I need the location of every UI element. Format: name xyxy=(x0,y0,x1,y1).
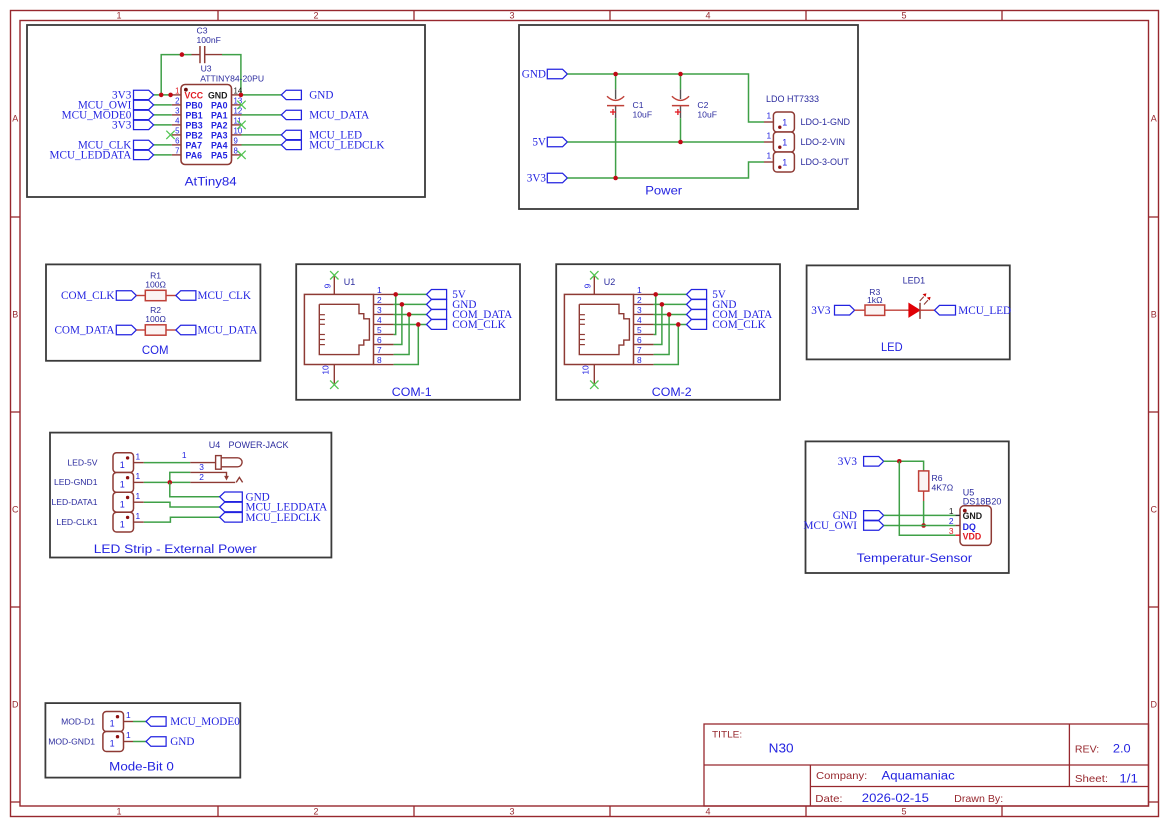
svg-text:3: 3 xyxy=(175,107,179,116)
wire U2 pin 8 rise xyxy=(654,324,679,364)
svg-text:Company:: Company: xyxy=(816,771,867,782)
block outline COM xyxy=(46,264,260,360)
power jack U4 barrel xyxy=(216,456,243,470)
svg-text:7: 7 xyxy=(175,147,179,156)
net flag 3V3 xyxy=(547,173,567,183)
wire U1 pin 3 to COM_DATA xyxy=(394,313,427,315)
svg-text:COM_CLK: COM_CLK xyxy=(712,319,765,331)
wire U2 pin 7 rise xyxy=(654,314,670,354)
wire MCU_MODE0 to U3 pin 3 xyxy=(154,114,172,116)
resistor R1 100ohm xyxy=(136,295,145,297)
connector MOD-D1 xyxy=(103,712,124,732)
svg-text:PB0: PB0 xyxy=(186,100,203,110)
wire MOD-D1 to MCU_MODE0 xyxy=(133,721,146,723)
no-connect U3 pin 5 xyxy=(166,131,174,139)
svg-text:3: 3 xyxy=(509,11,514,21)
svg-text:7: 7 xyxy=(377,345,382,355)
svg-text:C: C xyxy=(12,505,19,515)
connector pin LDO-1-GND xyxy=(764,121,773,123)
svg-text:D: D xyxy=(1150,700,1157,710)
svg-text:1: 1 xyxy=(136,451,141,461)
connector LED-GND1 xyxy=(113,473,134,493)
junction U2 pin 1 xyxy=(653,292,658,297)
svg-text:100nF: 100nF xyxy=(197,35,221,45)
svg-text:DS18B20: DS18B20 xyxy=(963,497,1002,507)
wire 3V3 to U3 pin 4 xyxy=(154,124,172,126)
svg-text:1: 1 xyxy=(136,511,141,521)
power jack U4 pin 1 stub xyxy=(190,462,215,464)
net flag GND xyxy=(687,300,707,310)
svg-text:PA4: PA4 xyxy=(211,140,228,150)
wire U1 pin 4 to COM_CLK xyxy=(394,323,427,325)
net flag GND xyxy=(281,90,301,99)
svg-text:REV:: REV: xyxy=(1075,745,1099,756)
net flag GND xyxy=(864,511,884,521)
junction C1 bottom xyxy=(613,176,618,181)
svg-text:COM_CLK: COM_CLK xyxy=(61,290,114,302)
connector U1 socket profile xyxy=(319,304,369,354)
connector U2 socket profile xyxy=(579,304,629,354)
frame column ticks xyxy=(218,11,1002,817)
svg-text:100Ω: 100Ω xyxy=(145,314,166,324)
wire GND1 up to pin 3 xyxy=(170,472,191,482)
wire U2 pin 2 to GND xyxy=(654,303,687,305)
svg-text:U3: U3 xyxy=(201,64,212,74)
svg-text:A: A xyxy=(1151,114,1157,124)
junction U1 pin 4 xyxy=(416,322,421,327)
svg-text:PA3: PA3 xyxy=(211,130,228,140)
connector U2 RJ45 body xyxy=(564,294,633,364)
no-connect U1 pin 9 xyxy=(330,271,338,279)
svg-text:1: 1 xyxy=(782,137,787,147)
no-connect U1 pin 10 xyxy=(330,381,338,389)
svg-text:MCU_CLK: MCU_CLK xyxy=(198,290,251,302)
svg-text:6: 6 xyxy=(637,335,642,345)
wire U3 pin 10 to MCU_LED xyxy=(242,134,282,136)
svg-text:3V3: 3V3 xyxy=(811,305,831,317)
svg-text:5V: 5V xyxy=(532,137,546,149)
net flag MCU_MODE0 xyxy=(146,717,166,727)
block outline LED xyxy=(807,265,1010,359)
wire 5V to LDO pin 2 xyxy=(567,141,764,143)
wire U1 pin 7 rise xyxy=(394,314,410,354)
wire U1 pin 6 rise xyxy=(394,304,402,344)
svg-text:MCU_DATA: MCU_DATA xyxy=(309,110,369,122)
wire U1 pin 8 rise xyxy=(394,324,419,364)
svg-text:1: 1 xyxy=(116,11,121,21)
svg-text:1: 1 xyxy=(110,739,115,749)
net flag MCU_LEDCLK xyxy=(220,513,243,523)
net flag COM_DATA xyxy=(427,310,447,320)
svg-text:1: 1 xyxy=(120,500,125,510)
frame row ticks xyxy=(11,217,1159,802)
net flag MCU_CLK xyxy=(134,140,154,149)
wire MCU_LEDDATA to U3 pin 7 xyxy=(154,154,172,156)
connector LED-5V xyxy=(113,453,134,473)
connector LED-DATA1 xyxy=(113,492,134,512)
capacitor C3 xyxy=(192,46,223,63)
svg-text:5: 5 xyxy=(901,11,906,21)
svg-text:4: 4 xyxy=(175,117,180,126)
wire LED-CLK1 to MCU_LEDCLK xyxy=(144,517,220,522)
net flag COM_CLK xyxy=(427,320,447,330)
svg-text:1: 1 xyxy=(116,807,121,817)
U2 pins 1-8 stubs and numbers xyxy=(634,285,654,365)
IC U3 left pin stubs and numbers xyxy=(172,87,181,156)
svg-text:10uF: 10uF xyxy=(697,109,717,119)
svg-text:5: 5 xyxy=(637,325,642,335)
svg-text:1: 1 xyxy=(120,460,125,470)
svg-text:9: 9 xyxy=(234,137,238,146)
net flag GND xyxy=(427,300,447,310)
svg-text:Power: Power xyxy=(645,183,682,197)
svg-text:C: C xyxy=(1150,505,1157,515)
svg-text:2: 2 xyxy=(637,295,642,305)
block outline Mode-Bit 0 xyxy=(45,703,240,778)
wire MCU_CLK to U3 pin 6 xyxy=(154,144,172,146)
svg-text:2026-02-15: 2026-02-15 xyxy=(862,793,929,805)
svg-text:PA6: PA6 xyxy=(186,150,203,160)
power jack U4 pin 3 switch xyxy=(190,472,226,476)
svg-text:N30: N30 xyxy=(769,742,794,756)
U5 pin stubs and numbers xyxy=(955,514,960,516)
net flag COM_DATA xyxy=(687,310,707,320)
U1 pin 9 stub top xyxy=(333,276,335,294)
block outline Temperatur-Sensor xyxy=(806,441,1009,573)
svg-text:B: B xyxy=(1151,310,1157,320)
sensor U5 DS18B20 body xyxy=(960,506,991,546)
capacitor C1 polarized xyxy=(615,89,617,118)
svg-text:GND: GND xyxy=(170,736,194,748)
svg-text:Mode-Bit 0: Mode-Bit 0 xyxy=(109,759,174,773)
junction U2 pin 4 xyxy=(676,322,681,327)
wire LED-DATA1 to MCU_LEDDATA xyxy=(144,502,220,507)
svg-text:LED1: LED1 xyxy=(903,276,926,286)
svg-text:3: 3 xyxy=(949,526,954,536)
svg-text:10: 10 xyxy=(581,365,591,375)
wire C1 bottom lead xyxy=(615,118,617,178)
net flag COM_CLK xyxy=(687,320,707,330)
net flag MCU_LEDDATA xyxy=(220,502,243,512)
svg-text:GND: GND xyxy=(522,69,546,81)
wire MCU_OWI to U3 pin 2 xyxy=(154,104,172,106)
wire U2 pin 4 to COM_CLK xyxy=(654,323,687,325)
wire U1 pin 1 to 5V xyxy=(394,293,427,295)
svg-text:LED-DATA1: LED-DATA1 xyxy=(51,497,97,507)
svg-text:MCU_LEDDATA: MCU_LEDDATA xyxy=(50,150,132,162)
svg-text:1: 1 xyxy=(767,111,772,121)
net flag MCU_LEDDATA xyxy=(134,150,154,159)
junction U1 pin 1 xyxy=(393,292,398,297)
wire U3 pin 12 to MCU_DATA xyxy=(242,114,282,116)
svg-text:1: 1 xyxy=(782,117,787,127)
wire R3 to LED1 xyxy=(885,309,910,311)
wire C1 top lead xyxy=(615,74,617,89)
connector U1 RJ45 body xyxy=(304,294,373,364)
wire 3V3 to U3 pin 1 xyxy=(154,94,172,96)
svg-text:8: 8 xyxy=(377,355,382,365)
svg-text:COM: COM xyxy=(142,343,169,357)
svg-text:VCC: VCC xyxy=(185,90,204,100)
svg-text:PA2: PA2 xyxy=(211,120,228,130)
net flag GND xyxy=(220,492,243,502)
svg-text:LED-CLK1: LED-CLK1 xyxy=(56,517,97,527)
svg-text:4: 4 xyxy=(377,315,382,325)
wire C2 top lead xyxy=(680,74,682,89)
svg-text:U4: U4 xyxy=(209,440,221,450)
block outline Power xyxy=(519,25,858,209)
net flag MCU_OWI xyxy=(134,100,154,109)
no-connect U3 pin 13 xyxy=(237,101,245,109)
svg-text:2.0: 2.0 xyxy=(1113,744,1131,756)
svg-text:3: 3 xyxy=(509,807,514,817)
svg-text:U2: U2 xyxy=(604,277,616,287)
net flag MCU_DATA xyxy=(176,325,196,335)
svg-text:LDO HT7333: LDO HT7333 xyxy=(766,94,819,104)
IC U3 pin names xyxy=(185,90,228,160)
svg-text:PA0: PA0 xyxy=(211,100,228,110)
net flag GND xyxy=(547,69,567,79)
svg-text:AtTiny84: AtTiny84 xyxy=(185,174,237,188)
connector pin LDO-2-VIN xyxy=(764,141,773,143)
U2 pin 9 stub top xyxy=(593,276,595,294)
wire 3V3 to R6 xyxy=(884,461,924,471)
net flag COM_DATA xyxy=(116,325,136,335)
wire U3 pin 14 to GND xyxy=(242,94,282,96)
connector LED-CLK1 xyxy=(113,512,134,532)
svg-text:LDO-2-VIN: LDO-2-VIN xyxy=(801,137,846,147)
wire LED-5V to jack pin 1 xyxy=(144,462,191,464)
svg-text:MCU_LED: MCU_LED xyxy=(958,305,1011,317)
no-connect U3 pin 11 xyxy=(237,121,245,129)
svg-text:1/1: 1/1 xyxy=(1119,773,1138,785)
svg-text:2: 2 xyxy=(949,516,954,526)
svg-text:B: B xyxy=(12,310,18,320)
wire U2 pin 5 rise xyxy=(654,294,656,334)
svg-text:1: 1 xyxy=(110,719,115,729)
svg-text:Temperatur-Sensor: Temperatur-Sensor xyxy=(857,551,973,565)
junction U2 pin 2 xyxy=(660,302,665,307)
svg-text:4: 4 xyxy=(637,315,642,325)
net flag 5V xyxy=(427,290,447,300)
svg-text:PB3: PB3 xyxy=(186,120,203,130)
wire 3V3 down to VDD xyxy=(899,461,955,535)
capacitor C2 polarized xyxy=(680,89,682,118)
wire U2 pin 3 to COM_DATA xyxy=(654,313,687,315)
svg-text:5: 5 xyxy=(175,127,180,136)
U1 pin 10 stub bottom xyxy=(333,365,335,384)
svg-text:2: 2 xyxy=(175,97,179,106)
resistor R2 100ohm xyxy=(136,329,145,331)
svg-text:LED-5V: LED-5V xyxy=(67,457,97,467)
svg-text:1: 1 xyxy=(637,285,642,295)
svg-text:3: 3 xyxy=(377,305,382,315)
net flag GND xyxy=(146,737,166,747)
title block border xyxy=(704,724,1149,806)
svg-text:LDO-3-OUT: LDO-3-OUT xyxy=(801,157,850,167)
svg-text:3V3: 3V3 xyxy=(527,173,547,185)
junction R6 DQ xyxy=(921,523,926,528)
svg-text:PB1: PB1 xyxy=(186,110,203,120)
svg-text:5: 5 xyxy=(377,325,382,335)
net flag MCU_MODE0 xyxy=(134,110,154,119)
U1 pins 1-8 stubs and numbers xyxy=(374,285,394,365)
net flag 5V xyxy=(547,137,567,147)
svg-text:COM-2: COM-2 xyxy=(652,385,692,399)
net flag MCU_DATA xyxy=(281,110,301,119)
svg-text:1: 1 xyxy=(767,151,772,161)
svg-text:MCU_DATA: MCU_DATA xyxy=(198,325,258,337)
wire LED1 to MCU_LED xyxy=(920,309,935,311)
junction C2 bottom xyxy=(678,140,683,145)
wire MOD-GND1 to GND xyxy=(133,741,146,743)
svg-text:MCU_OWI: MCU_OWI xyxy=(804,520,858,532)
wire 3V3 to LDO pin 3 xyxy=(567,162,764,178)
junction 3V3 xyxy=(897,459,902,464)
svg-text:4K7Ω: 4K7Ω xyxy=(932,483,954,493)
svg-text:4: 4 xyxy=(705,807,710,817)
svg-text:10uF: 10uF xyxy=(633,109,653,119)
svg-text:LED-GND1: LED-GND1 xyxy=(54,477,98,487)
resistor R3 1k xyxy=(855,309,865,311)
IC U3 right pin stubs and numbers xyxy=(232,87,243,156)
svg-text:LDO-1-GND: LDO-1-GND xyxy=(801,117,851,127)
wire VCC to C3 left xyxy=(161,55,191,95)
svg-text:TITLE:: TITLE: xyxy=(712,730,742,740)
wire U1 pin 2 to GND xyxy=(394,303,427,305)
wire C3 right to GND net xyxy=(222,55,241,95)
svg-text:1kΩ: 1kΩ xyxy=(867,295,883,305)
svg-text:R6: R6 xyxy=(932,473,943,483)
block outline COM-2 xyxy=(556,264,780,400)
wire C2 bottom lead xyxy=(680,118,682,142)
svg-text:1: 1 xyxy=(136,471,141,481)
wire GND to LDO pin 1 xyxy=(567,74,764,122)
connector MOD-GND1 xyxy=(103,732,124,752)
svg-text:Aquamaniac: Aquamaniac xyxy=(882,770,955,782)
no-connect U2 pin 10 xyxy=(590,381,598,389)
wire GND1 down to GND flag xyxy=(170,482,220,496)
power jack U4 pin 2 sleeve xyxy=(190,477,242,482)
svg-text:9: 9 xyxy=(323,283,333,288)
net flag 3V3 xyxy=(864,457,884,467)
U2 pin 10 stub bottom xyxy=(593,365,595,384)
svg-text:9: 9 xyxy=(583,283,593,288)
svg-text:D: D xyxy=(12,700,19,710)
svg-text:1: 1 xyxy=(175,87,179,96)
svg-text:1: 1 xyxy=(120,480,125,490)
svg-text:Sheet:: Sheet: xyxy=(1075,774,1108,785)
net flag MCU_LEDCLK xyxy=(281,140,301,149)
svg-text:2: 2 xyxy=(199,472,204,482)
svg-text:LED: LED xyxy=(881,340,903,354)
junction C1 top xyxy=(613,72,618,77)
svg-text:1: 1 xyxy=(377,285,382,295)
svg-text:2: 2 xyxy=(377,295,382,305)
net flag 3V3 xyxy=(835,305,855,315)
svg-text:ATTINY84-20PU: ATTINY84-20PU xyxy=(200,73,264,83)
block outline LED Strip - External Power xyxy=(50,433,331,558)
svg-text:2: 2 xyxy=(313,807,318,817)
svg-text:COM-1: COM-1 xyxy=(392,385,432,399)
net flag 3V3 xyxy=(134,90,154,99)
IC U3 ATTINY84-20PU body xyxy=(181,85,232,165)
net flag 5V xyxy=(687,290,707,300)
svg-text:6: 6 xyxy=(175,137,179,146)
wire U2 pin 1 to 5V xyxy=(654,293,687,295)
net flag COM_CLK xyxy=(116,291,136,301)
junction C2 top xyxy=(678,72,683,77)
svg-text:COM_CLK: COM_CLK xyxy=(452,319,505,331)
svg-text:A: A xyxy=(12,114,18,124)
svg-text:6: 6 xyxy=(377,335,382,345)
junction LED-GND1 xyxy=(168,480,173,485)
svg-text:1: 1 xyxy=(949,506,954,516)
svg-text:POWER-JACK: POWER-JACK xyxy=(229,440,289,450)
svg-text:MOD-GND1: MOD-GND1 xyxy=(48,736,95,746)
wire U2 pin 6 rise xyxy=(654,304,662,344)
svg-text:1: 1 xyxy=(126,730,131,740)
svg-text:3V3: 3V3 xyxy=(838,456,858,468)
svg-text:DQ: DQ xyxy=(963,522,976,532)
svg-text:1: 1 xyxy=(136,491,141,501)
net flag MCU_LED xyxy=(281,130,301,139)
junction U1 pin 2 xyxy=(400,302,405,307)
connector pin LDO-3-OUT xyxy=(764,161,773,163)
svg-text:8: 8 xyxy=(637,355,642,365)
junction dots on 3V3/pin1 wire xyxy=(159,93,164,98)
wire MCU_OWI to U5 pin 2 xyxy=(884,525,956,527)
svg-text:GND: GND xyxy=(309,90,333,102)
svg-text:100Ω: 100Ω xyxy=(145,280,166,290)
svg-text:GND: GND xyxy=(963,511,983,521)
net flag MCU_OWI xyxy=(864,521,884,531)
junction on C3 left wire xyxy=(180,52,185,57)
svg-text:MCU_LEDCLK: MCU_LEDCLK xyxy=(246,512,321,524)
svg-text:MCU_MODE0: MCU_MODE0 xyxy=(170,716,240,728)
block outline AtTiny84 xyxy=(27,25,425,197)
svg-text:U1: U1 xyxy=(344,277,356,287)
net flag MCU_CLK xyxy=(176,291,196,301)
svg-text:Date:: Date: xyxy=(815,794,842,805)
junction U2 pin 3 xyxy=(667,312,672,317)
wire GND to U5 pin 1 xyxy=(884,514,956,516)
svg-text:3V3: 3V3 xyxy=(112,120,132,132)
svg-text:GND: GND xyxy=(208,90,228,100)
svg-text:LED Strip - External Power: LED Strip - External Power xyxy=(94,542,257,556)
svg-text:5: 5 xyxy=(901,807,906,817)
svg-text:PA1: PA1 xyxy=(211,110,228,120)
wire U3 pin 9 to MCU_LEDCLK xyxy=(242,144,282,146)
svg-text:C3: C3 xyxy=(197,26,208,36)
junction at U3 pin 14 xyxy=(239,93,244,98)
svg-text:7: 7 xyxy=(637,345,642,355)
svg-text:VDD: VDD xyxy=(963,532,982,542)
svg-text:3: 3 xyxy=(637,305,642,315)
svg-text:MOD-D1: MOD-D1 xyxy=(61,716,95,726)
svg-text:COM_DATA: COM_DATA xyxy=(54,325,114,337)
no-connect U2 pin 9 xyxy=(590,271,598,279)
svg-text:MCU_LEDCLK: MCU_LEDCLK xyxy=(309,140,384,152)
wire R6 to DQ xyxy=(923,491,925,501)
svg-text:PB2: PB2 xyxy=(186,130,203,140)
wire LED-GND1 to jack pin 2 xyxy=(144,481,191,483)
svg-text:2: 2 xyxy=(313,11,318,21)
svg-text:1: 1 xyxy=(120,519,125,529)
resistor R6 4K7 xyxy=(919,471,929,491)
svg-text:1: 1 xyxy=(767,131,772,141)
junction U1 pin 3 xyxy=(407,312,412,317)
